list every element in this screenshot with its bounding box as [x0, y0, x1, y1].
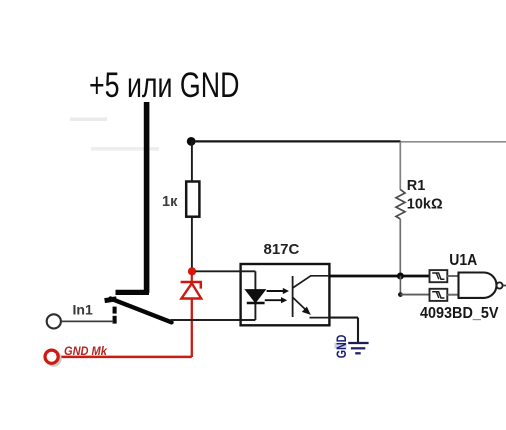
svg-text:817C: 817C — [264, 241, 300, 258]
light arrow 1 — [267, 288, 289, 294]
wire square2 to gate — [447, 294, 458, 296]
wire down to ground — [357, 318, 359, 343]
wire top-right gray tail — [401, 141, 506, 143]
wire square1 to gate — [447, 275, 458, 277]
wire gate output — [503, 285, 506, 287]
wire R1 to node — [399, 219, 401, 276]
svg-text:U1A: U1A — [449, 252, 477, 269]
svg-text:GND Mk: GND Mk — [64, 346, 107, 358]
LED rail vertical — [254, 271, 256, 320]
GND text highlight — [335, 343, 347, 349]
switch contact dash 1 — [113, 307, 117, 314]
schmitt input square 2 — [430, 289, 448, 301]
svg-text:In1: In1 — [73, 302, 93, 318]
wire In1 to switch — [61, 320, 114, 322]
wire thick horizontal to switch — [116, 290, 150, 295]
wire to second input square — [400, 294, 429, 296]
terminal GND Mk (red ring) — [45, 350, 58, 363]
diode D1 cathode bar (red) — [181, 282, 201, 289]
faint smudge 1 — [70, 118, 107, 121]
wire down to second input — [399, 276, 401, 295]
node red junction dot — [188, 267, 196, 275]
node junction at gate input — [397, 273, 404, 280]
resistor 1к body — [186, 182, 199, 217]
phototransistor base line — [292, 276, 294, 317]
ground symbol bar 2 — [351, 347, 365, 349]
svg-text:1к: 1к — [162, 194, 178, 210]
wire switch to optocoupler pin2 — [171, 319, 256, 321]
diode D1 triangle (red) — [181, 283, 201, 298]
wire pin1 anode — [196, 270, 256, 272]
phototransistor collector — [293, 276, 311, 288]
wire top tail down to R1 — [399, 142, 401, 190]
schmitt input square 1 — [430, 270, 448, 282]
faint smudge 2 — [91, 147, 159, 151]
wire top horizontal — [191, 140, 401, 142]
wire emitter pin inside — [310, 317, 330, 319]
phototransistor emitter — [293, 297, 308, 311]
wire resistor to node — [191, 217, 193, 269]
switch pivot tick — [105, 299, 117, 301]
svg-text:4093BD_5V: 4093BD_5V — [420, 305, 498, 323]
node junction dot top — [187, 137, 196, 146]
ground symbol bar 1 — [348, 342, 368, 344]
wire thick vertical from +5/GND — [144, 102, 150, 293]
NAND gate inversion bubble — [496, 282, 502, 288]
svg-text:GND: GND — [333, 335, 349, 359]
LED triangle — [245, 290, 265, 303]
wire red vertical down — [191, 299, 193, 358]
wire collector pin inside — [310, 275, 329, 277]
terminal In1 (open circle) — [47, 314, 61, 328]
wire red stem to diode — [191, 273, 193, 282]
resistor R1 zigzag — [396, 190, 405, 220]
switch contact dash 2 — [113, 316, 117, 324]
wire red horizontal GND Mk — [57, 356, 192, 359]
svg-text:10kΩ: 10kΩ — [407, 196, 443, 212]
svg-text:R1: R1 — [407, 178, 426, 194]
terminal shadow — [47, 352, 61, 366]
svg-text:+5 или GND: +5 или GND — [89, 66, 239, 105]
node small dot second input — [398, 292, 403, 297]
wire collector to U1A input (thick) — [329, 275, 429, 278]
switch lever SW1 — [111, 299, 172, 323]
wire emitter out — [329, 317, 358, 319]
NAND gate U1A body — [459, 273, 497, 298]
LED cathode bar — [247, 302, 265, 305]
ground symbol bar 3 — [355, 352, 361, 354]
wire junction to resistor 1k — [191, 141, 193, 181]
emitter arrowhead — [302, 307, 311, 315]
optocoupler U2 817C box — [241, 264, 330, 325]
light arrow 2 — [265, 297, 287, 303]
